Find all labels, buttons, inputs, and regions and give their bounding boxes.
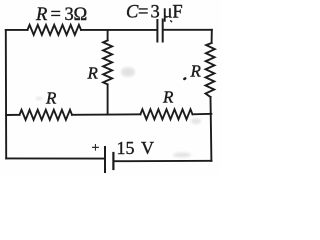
resistor R4 right vertical	[206, 43, 215, 97]
wire bottom right segment	[115, 160, 212, 162]
wire top-left segment	[6, 29, 28, 31]
capacitor C1 left plate	[156, 20, 158, 42]
wire top-middle segment	[81, 29, 156, 31]
wire middle row left stub	[6, 114, 19, 116]
bleed-through smudge near bottom right wire	[173, 153, 191, 158]
bleed-through smudge below middle row right	[191, 118, 201, 124]
wire bottom left segment	[6, 157, 104, 159]
svg-text:R: R	[87, 64, 99, 83]
battery B1 positive plate (long)	[104, 147, 106, 172]
wire middle row center segment	[72, 113, 140, 116]
svg-text:C=3μF: C=3μF	[126, 3, 183, 23]
svg-text:15V: 15V	[117, 138, 155, 158]
wire top-right segment	[164, 29, 212, 31]
wire middle vertical bottom stub	[107, 84, 109, 114]
bleed-through smudge near middle-left resistor label	[36, 97, 43, 100]
capacitor C1 right plate	[162, 20, 164, 42]
wire left side	[5, 30, 7, 159]
svg-text:R=3Ω: R=3Ω	[35, 5, 87, 25]
resistor R1 top (R = 3 ohm)	[28, 25, 82, 35]
resistor R2 middle vertical	[103, 40, 112, 84]
stray ink tick above capacitor right plate	[170, 20, 172, 22]
stray ink dot near right resistor label	[183, 77, 187, 81]
wire middle vertical top stub	[107, 30, 109, 40]
wire right side upper	[211, 30, 213, 43]
svg-text:R: R	[162, 87, 174, 106]
wire middle row right stub	[193, 113, 212, 116]
svg-text:+: +	[92, 141, 100, 156]
svg-text:R: R	[190, 62, 202, 81]
bleed-through smudge left of middle vertical resistor area	[121, 67, 135, 77]
battery B1 negative plate (short)	[112, 153, 114, 169]
resistor R3 middle-left horizontal	[20, 110, 73, 120]
wire right side lower	[210, 97, 213, 161]
resistor R5 middle-right horizontal	[140, 109, 192, 119]
svg-text:R: R	[45, 88, 57, 107]
